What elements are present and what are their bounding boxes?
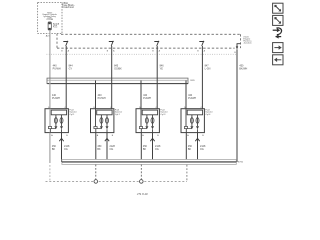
dashed ECM boundary horizontal — [46, 180, 187, 182]
in-line connector terminal 2 (7 symbol) — [109, 41, 114, 46]
svg-text:S750: S750 — [238, 162, 244, 164]
fuse value label — [53, 22, 60, 28]
svg-text:B: B — [234, 52, 236, 54]
injector 2 pin letters bottom — [97, 134, 114, 137]
injector 1 pin letters top — [48, 107, 67, 109]
injector 4 pin letters bottom — [187, 134, 204, 137]
svg-text:L-GN: L-GN — [205, 67, 211, 70]
svg-text:OG: OG — [200, 148, 204, 151]
svg-text:OG: OG — [155, 148, 159, 151]
low ref label injector 3 — [143, 145, 148, 151]
svg-text:S205: S205 — [190, 80, 194, 82]
wire 4040 feed (gray highlighted) fuse to bus bar — [49, 30, 51, 78]
svg-text:B: B — [197, 51, 199, 53]
in-line connector chevron wire 1 — [59, 138, 63, 141]
svg-text:B: B — [61, 51, 63, 53]
injector 3 pin letters top — [139, 107, 158, 109]
svg-text:OG/BK: OG/BK — [114, 67, 122, 70]
low reference wire injector 3 — [140, 133, 142, 165]
connector 1 pin letters — [61, 50, 69, 53]
wire label control 1 — [69, 64, 74, 70]
toolbar icon zoom-region 2 — [273, 15, 283, 25]
in-line connector chevron wire 2 — [105, 138, 109, 141]
connector 3 pin letters — [152, 50, 160, 53]
connector 2 pin letters — [107, 50, 115, 53]
wire label control 2 — [114, 64, 122, 70]
low ref drop injector 2 to ECM (dashed) — [95, 165, 97, 180]
svg-text:B: B — [202, 135, 204, 137]
svg-text:Cyl 3: Cyl 3 — [160, 114, 166, 116]
fuse block X50A dashed outline — [38, 3, 62, 34]
svg-text:GY: GY — [69, 67, 73, 70]
svg-text:Fuse: Fuse — [53, 27, 58, 29]
in-line connector terminal 3 (7 symbol) — [154, 41, 159, 46]
ground wire injector 3 to lower bus — [152, 133, 154, 162]
svg-text:JT1 8-10: JT1 8-10 — [137, 192, 148, 196]
svg-text:A: A — [97, 134, 99, 137]
ground label injector 1 — [64, 145, 70, 151]
low reference wire injector 2 — [95, 133, 97, 165]
low ref label injector 1 — [52, 145, 57, 151]
svg-text:BK: BK — [97, 148, 101, 151]
harness boundary dashed line B — [57, 47, 235, 49]
svg-text:Junction: Junction — [243, 42, 252, 45]
svg-text:A: A — [51, 134, 53, 137]
svg-text:A: A — [113, 50, 115, 53]
supply wire to injector 3 — [140, 81, 142, 109]
wire label ground 5 — [239, 64, 247, 70]
svg-text:BK: BK — [143, 148, 147, 151]
in-line connector terminal 1 (7 symbol) — [63, 41, 68, 46]
in-line connector chevron wire 3 — [150, 138, 154, 141]
injector 2 name label — [115, 110, 122, 116]
ground label injector 4 — [200, 145, 206, 151]
ECM pin ring terminal 1 — [94, 180, 98, 184]
svg-text:B: B — [66, 135, 68, 137]
fuse F22UA symbol — [48, 22, 51, 30]
svg-text:PU/WH: PU/WH — [53, 67, 61, 70]
injector 3 pin letters bottom — [142, 134, 159, 137]
svg-text:B: B — [157, 135, 159, 137]
svg-text:A: A — [68, 50, 70, 53]
low ref label injector 4 — [188, 145, 193, 151]
low reference wire injector 1 (gray) — [49, 133, 51, 163]
supply wire label injector 3 — [143, 94, 151, 100]
supply wire label injector 4 — [188, 94, 196, 100]
svg-text:OG: OG — [110, 148, 114, 151]
svg-text:PU/WH: PU/WH — [98, 97, 106, 100]
svg-text:Underhood: Underhood — [62, 6, 74, 9]
svg-text:PU/WH: PU/WH — [52, 97, 60, 100]
ground label injector 2 — [110, 145, 116, 151]
svg-text:B: B — [107, 51, 109, 53]
ground label injector 3 — [155, 145, 161, 151]
low ref label injector 2 — [97, 145, 102, 151]
svg-text:BK: BK — [188, 148, 192, 151]
control wire 3 from connector to injector 3 — [156, 46, 158, 109]
harness boundary left step — [56, 34, 58, 49]
wire label 4040 PU/WH (feed) — [53, 64, 61, 70]
wire label control 4 — [205, 64, 211, 70]
harness boundary right step — [240, 34, 242, 48]
ground wire 5 from connector to lower bus — [236, 49, 238, 162]
harness boundary dashed line A — [61, 33, 241, 35]
in-line connector terminal 4 (7 symbol) — [199, 41, 204, 46]
ground wire injector 1 to lower bus — [61, 133, 63, 162]
svg-text:Cyl 2: Cyl 2 — [115, 114, 121, 116]
dashed continuation injector 4 — [186, 165, 188, 182]
ECM pin ring terminal 2 — [140, 180, 144, 184]
svg-text:Cyl 1: Cyl 1 — [69, 114, 75, 116]
svg-text:BK/WH: BK/WH — [239, 67, 247, 70]
low reference wire injector 4 — [185, 133, 187, 164]
in-line connector chevron wire 4 — [195, 138, 199, 141]
dotted separator line — [47, 53, 237, 55]
svg-text:B: B — [152, 51, 154, 53]
svg-text:F22UA: F22UA — [47, 18, 54, 21]
connector 5 continuation arrow — [236, 44, 240, 50]
ground wire injector 4 to lower bus — [197, 133, 199, 162]
svg-text:PU/WH: PU/WH — [143, 97, 151, 100]
control wire 2 from connector to injector 2 — [111, 46, 113, 109]
injector 3 name label — [160, 110, 167, 116]
lower bus bar (ground splice) — [62, 160, 236, 165]
relay KR75 label text — [43, 13, 57, 22]
toolbar icon arrow left — [273, 55, 283, 65]
wire label control 3 — [160, 64, 165, 70]
ground wire injector 2 to lower bus — [106, 133, 108, 162]
supply wire to injector 2 — [95, 81, 97, 109]
svg-text:A: A — [159, 50, 161, 53]
injector 1 pin letters bottom — [51, 134, 68, 137]
control wire 1 from connector to injector 1 — [65, 46, 67, 109]
svg-text:A: A — [204, 50, 206, 53]
svg-text:OG: OG — [64, 148, 68, 151]
svg-text:A: A — [187, 134, 189, 137]
toolbar icon swap arrows — [273, 28, 282, 37]
svg-text:PU/WH: PU/WH — [188, 97, 196, 100]
supply wire label injector 2 — [98, 94, 106, 100]
connector 4 pin letters — [197, 50, 205, 53]
gray dashed continuation injector 1 — [49, 165, 51, 181]
top right harness label — [243, 36, 252, 44]
injector 4 pin letters top — [184, 107, 203, 109]
control wire 4 from connector to injector 4 — [201, 46, 203, 109]
svg-text:A: A — [142, 134, 144, 137]
toolbar icon zoom-region 1 — [273, 3, 283, 13]
svg-text:BK: BK — [52, 148, 56, 151]
low ref drop injector 3 to ECM (dashed) — [140, 165, 142, 180]
fuse block label (Fuse Block Underhood X50A) — [62, 2, 75, 9]
supply bus bar (splice pack) — [47, 78, 188, 84]
svg-text:Cyl 4: Cyl 4 — [205, 114, 211, 116]
supply wire to injector 4 — [185, 81, 187, 109]
supply wire label injector 1 — [52, 94, 60, 100]
injector 1 name label — [69, 110, 76, 116]
toolbar icon arrow right — [273, 43, 283, 53]
supply wire to injector 1 (gray) — [49, 78, 51, 108]
svg-text:YE: YE — [160, 67, 164, 70]
injector 4 name label — [205, 110, 212, 116]
svg-text:B: B — [112, 135, 114, 137]
injector 2 pin letters top — [94, 107, 113, 109]
